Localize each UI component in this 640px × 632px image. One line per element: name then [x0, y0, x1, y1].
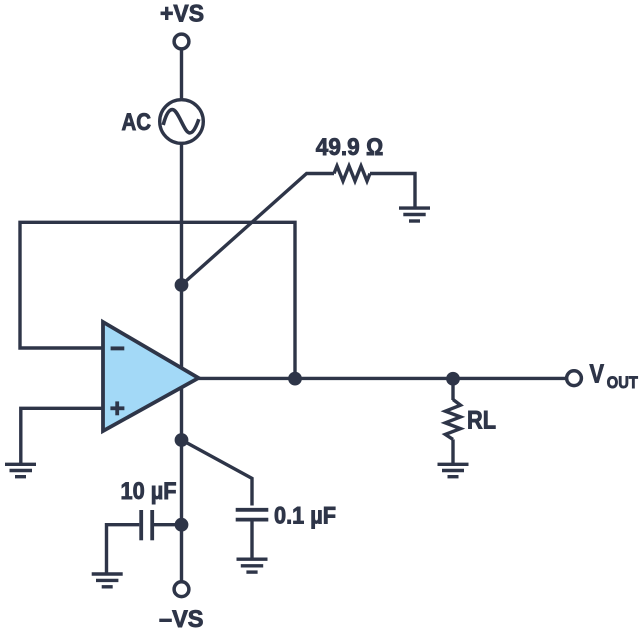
resistor 49.9 ohm — [334, 166, 370, 181]
resistor RL — [451, 379, 454, 400]
capacitor 0.1uF — [236, 508, 269, 512]
node junction RL/output — [446, 372, 460, 386]
wire non-inverting input to ground — [21, 408, 103, 463]
node junction feedback/output — [288, 372, 302, 386]
svg-text:RL: RL — [467, 407, 496, 435]
svg-text:49.9 Ω: 49.9 Ω — [316, 134, 384, 161]
svg-text:V: V — [590, 359, 605, 389]
node junction 10uF/-VS — [175, 518, 189, 532]
svg-text:AC: AC — [122, 109, 152, 136]
terminal +VS — [174, 34, 189, 49]
wire +VS terminal to AC source — [180, 49, 183, 100]
node junction bypass branch — [175, 433, 189, 447]
wire feedback loop: output to inverting input — [20, 222, 295, 378]
wire diagonal branch to 49.9 ohm resistor — [182, 174, 335, 286]
svg-text:10 µF: 10 µF — [121, 478, 177, 505]
op-amp minus input symbol — [111, 346, 125, 350]
capacitor 10uF — [107, 525, 140, 573]
ground (49.9 ohm) — [399, 206, 430, 209]
ground (non-inverting input) — [5, 463, 36, 466]
op-amp U1 — [103, 322, 199, 431]
svg-text:–VS: –VS — [159, 606, 204, 632]
svg-text:0.1 µF: 0.1 µF — [274, 503, 336, 530]
wire op-amp output to VOUT — [199, 377, 567, 380]
ground (0.1uF) — [237, 558, 268, 561]
wire diagonal to 0.1uF cap — [184, 441, 253, 506]
AC source V1 — [160, 100, 204, 144]
node junction at AC/feedback branch — [175, 278, 189, 292]
terminal -VS — [174, 582, 189, 597]
svg-text:OUT: OUT — [607, 373, 639, 392]
ground (RL) — [438, 463, 469, 466]
ground (10uF) — [92, 572, 123, 575]
terminal VOUT — [567, 371, 582, 386]
op-amp plus input symbol — [110, 406, 124, 410]
wire AC source down to -VS terminal (passes behind op-amp) — [180, 144, 183, 581]
svg-text:+VS: +VS — [160, 1, 204, 28]
